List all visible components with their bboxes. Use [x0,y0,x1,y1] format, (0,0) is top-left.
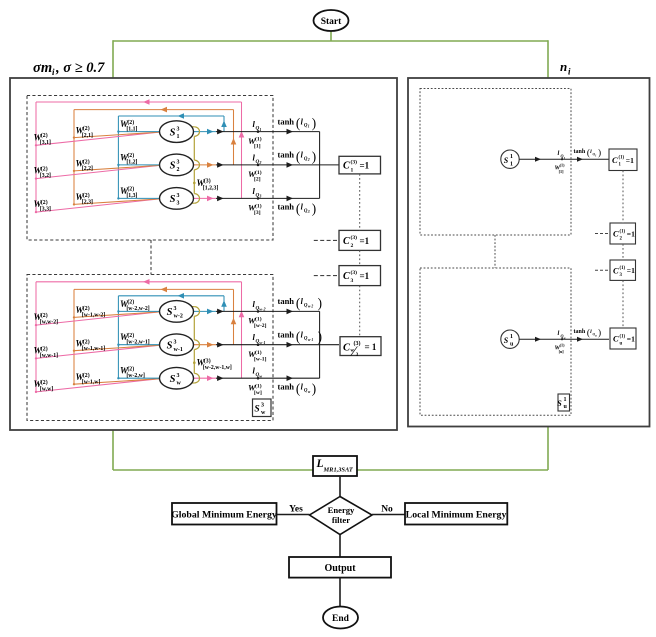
svg-text:(: ( [296,116,300,131]
svg-text:C: C [612,155,618,165]
svg-text:(2): (2) [41,312,48,319]
svg-text:Global Minimum Energy: Global Minimum Energy [171,510,277,521]
svg-text:w-1: w-1 [259,340,265,345]
svg-text:[w-2]: [w-2] [254,323,267,329]
svg-text:1: 1 [308,125,310,129]
svg-text:(1): (1) [255,316,262,323]
svg-text:=1: =1 [360,161,370,171]
svg-text:(2): (2) [41,345,48,352]
svg-text:C: C [343,271,350,282]
svg-text:S: S [254,405,259,415]
svg-text:[w-2,w-1,w]: [w-2,w-1,w] [203,365,232,371]
svg-text:[3,2]: [3,2] [40,173,51,179]
svg-text:n: n [560,59,567,74]
svg-text:[w-1,w-1]: [w-1,w-1] [82,346,105,352]
svg-text:Output: Output [324,563,356,574]
svg-text:(1): (1) [620,229,626,234]
svg-text:[3,3]: [3,3] [40,207,51,213]
svg-text:MR1,3SAT: MR1,3SAT [323,467,354,474]
svg-text:= 1: = 1 [365,342,377,352]
svg-text:[u]: [u] [559,349,565,354]
svg-text:[w,w-2]: [w,w-2] [40,320,58,326]
svg-text:tanh: tanh [278,329,295,339]
svg-text:Energy: Energy [328,505,355,515]
svg-text:w-2: w-2 [174,314,183,320]
svg-text:(2): (2) [41,199,48,206]
svg-text:(2): (2) [83,159,90,166]
svg-text:[2,3]: [2,3] [82,200,93,206]
svg-text:3: 3 [177,160,180,166]
svg-text:3: 3 [177,201,180,207]
svg-text:(: ( [296,381,300,396]
svg-text:tanh: tanh [278,381,295,391]
svg-text:1: 1 [510,154,513,160]
svg-text:): ) [312,201,316,216]
svg-text:=1: =1 [627,335,635,344]
svg-text:(1): (1) [560,343,565,348]
svg-text:Start: Start [321,17,342,27]
svg-text:[w-2,w-1]: [w-2,w-1] [126,340,149,346]
svg-text:[3]: [3] [254,210,261,216]
svg-text:2: 2 [351,243,354,249]
svg-text:1: 1 [177,134,180,140]
svg-text:(1): (1) [255,382,262,389]
svg-text:(2): (2) [127,299,134,306]
svg-text:(1): (1) [255,136,262,143]
svg-text:σm: σm [33,60,52,76]
svg-text:C: C [613,229,619,239]
svg-text:3: 3 [174,340,177,346]
svg-text:): ) [598,327,601,338]
svg-text:1: 1 [564,397,567,403]
svg-text:[w-1,w-2]: [w-1,w-2] [82,313,105,319]
svg-text:S: S [167,307,173,318]
svg-text:(: ( [296,296,300,311]
svg-text:(2): (2) [83,192,90,199]
svg-text:S: S [170,161,176,172]
svg-text:(2): (2) [83,338,90,345]
svg-text:1: 1 [510,161,513,167]
svg-text:u: u [620,341,623,346]
svg-text:(1): (1) [619,156,625,161]
svg-text:w: w [259,374,262,379]
svg-text:L: L [316,458,324,470]
svg-text:S: S [170,127,176,138]
svg-text:(3): (3) [351,234,358,241]
svg-text:w-2: w-2 [259,307,265,312]
svg-text:): ) [598,147,601,158]
svg-text:): ) [312,149,316,164]
svg-text:C: C [343,236,350,247]
svg-text:(2): (2) [83,305,90,312]
svg-text:[1,2,3]: [1,2,3] [203,185,219,191]
svg-text:): ) [318,296,322,311]
svg-text:[1]: [1] [254,143,261,149]
svg-text:3: 3 [351,278,354,284]
svg-text:[w-2,w-2]: [w-2,w-2] [126,306,149,312]
svg-text:[w-1]: [w-1] [254,356,267,362]
svg-text:Yes: Yes [289,505,303,515]
svg-text:(: ( [296,201,300,216]
svg-text:[w]: [w] [254,390,262,396]
svg-text:(1): (1) [255,169,262,176]
svg-text:2: 2 [307,158,310,162]
svg-text:tanh: tanh [574,149,586,155]
svg-text:=1: =1 [360,271,370,281]
svg-text:): ) [318,329,322,344]
svg-text:(2): (2) [83,372,90,379]
svg-text:(3): (3) [204,358,211,365]
svg-text:w-1: w-1 [174,347,183,353]
svg-text:): ) [312,381,316,396]
svg-text:(1): (1) [620,334,626,339]
svg-text:1: 1 [351,168,354,174]
svg-text:(2): (2) [83,125,90,132]
svg-text:[2,1]: [2,1] [82,133,93,139]
svg-text:[2]: [2] [254,177,261,183]
svg-text:(1): (1) [560,163,565,168]
svg-text:S: S [504,156,509,165]
svg-text:tanh: tanh [278,296,295,306]
svg-text:C: C [613,334,619,344]
svg-text:(2): (2) [127,119,134,126]
svg-text:w: w [261,410,266,416]
svg-text:Local Minimum Energy: Local Minimum Energy [406,510,507,521]
svg-text:S: S [557,399,562,408]
svg-text:tanh: tanh [278,202,295,212]
svg-text:1: 1 [510,334,513,340]
svg-text:(: ( [296,329,300,344]
svg-text:[1]: [1] [559,169,564,174]
svg-text:(3): (3) [204,178,211,185]
svg-text:2: 2 [177,167,180,173]
svg-text:[w-2,w]: [w-2,w] [126,373,145,379]
svg-text:[3,1]: [3,1] [40,140,51,146]
svg-text:w: w [177,380,182,386]
svg-text:l: l [558,330,560,337]
svg-text:=1: =1 [626,156,634,165]
svg-text:3: 3 [177,373,180,379]
svg-text:(2): (2) [127,152,134,159]
svg-text:w-1: w-1 [308,338,314,342]
svg-text:(3): (3) [351,269,358,276]
svg-text:(3): (3) [351,159,358,166]
svg-text:[w-1,w]: [w-1,w] [82,379,101,385]
svg-text:[2,2]: [2,2] [82,166,93,172]
svg-text:C: C [613,265,619,275]
svg-text:u: u [564,336,566,340]
svg-text:(2): (2) [127,365,134,372]
svg-text:(1): (1) [255,203,262,210]
svg-text:C: C [343,161,350,172]
svg-text:=1: =1 [627,266,635,275]
svg-text:filter: filter [332,515,350,525]
svg-text:(1): (1) [620,266,626,271]
svg-text:[1,2]: [1,2] [126,160,137,166]
svg-text:w-2: w-2 [308,305,314,309]
svg-text:): ) [312,116,316,131]
svg-text:tanh: tanh [278,150,295,160]
svg-text:End: End [332,614,350,624]
svg-text:[w,w-1]: [w,w-1] [40,353,58,359]
svg-text:S: S [167,341,173,352]
svg-text:(2): (2) [41,132,48,139]
svg-text:S: S [504,336,509,345]
svg-text:2: 2 [258,160,261,165]
svg-text:S: S [170,194,176,205]
svg-text:3: 3 [177,126,180,132]
svg-text:No: No [381,505,393,515]
svg-text:[1,1]: [1,1] [126,126,137,132]
svg-text:1: 1 [259,127,261,132]
svg-text:[1,3]: [1,3] [126,193,137,199]
svg-text:3: 3 [177,193,180,199]
svg-text:(2): (2) [41,379,48,386]
svg-text:tanh: tanh [278,116,295,126]
svg-text:3: 3 [261,403,264,409]
svg-text:(2): (2) [127,186,134,193]
svg-text:(2): (2) [41,166,48,173]
svg-text:(2): (2) [127,332,134,339]
svg-text:[w,w]: [w,w] [40,386,53,392]
svg-text:3: 3 [258,194,261,199]
svg-text:S: S [170,374,176,385]
svg-text:3: 3 [174,306,177,312]
svg-text:tanh: tanh [574,329,586,335]
svg-text:l: l [558,150,560,157]
svg-text:, σ ≥ 0.7: , σ ≥ 0.7 [55,60,105,76]
svg-text:=1: =1 [360,236,370,246]
svg-text:=1: =1 [627,230,635,239]
svg-text:(3): (3) [354,340,361,347]
svg-text:(1): (1) [255,349,262,356]
svg-text:3: 3 [307,210,310,214]
svg-text:(: ( [296,149,300,164]
